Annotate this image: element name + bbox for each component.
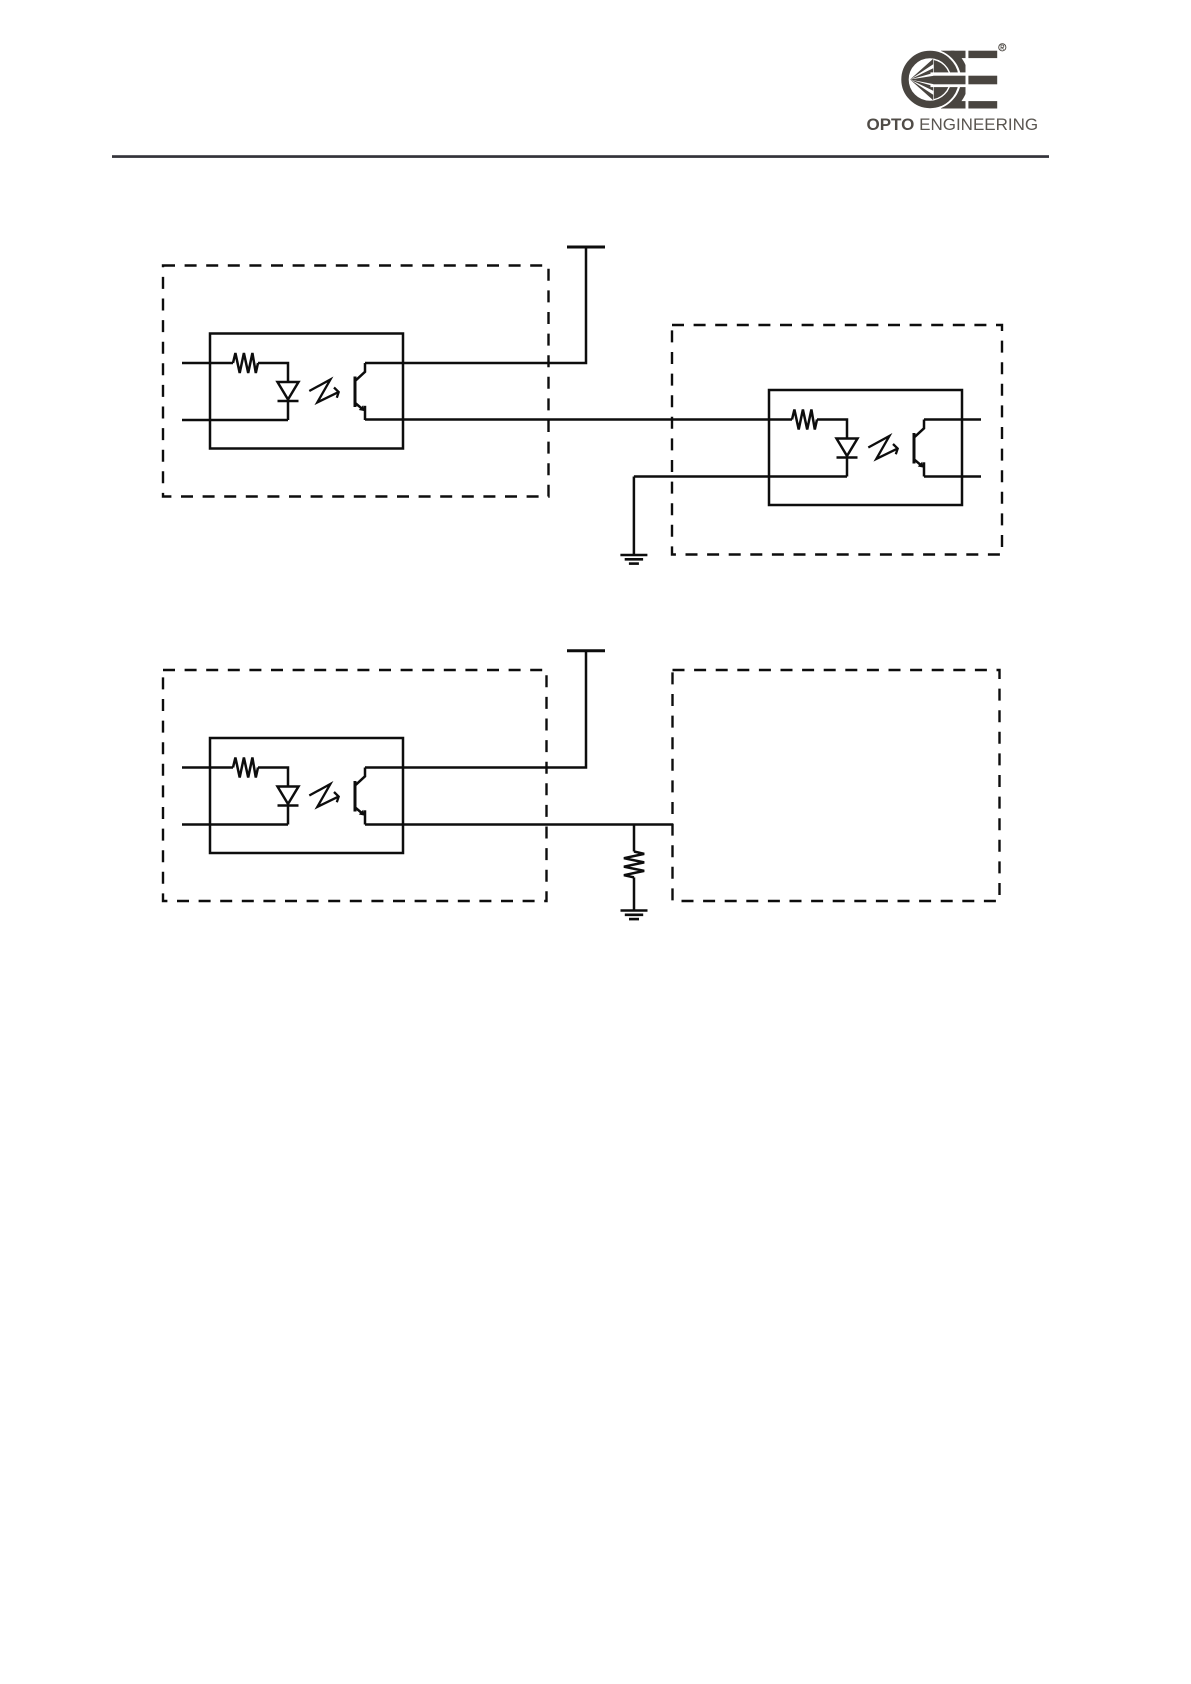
svg-text:OPTO ENGINEERING: OPTO ENGINEERING (867, 115, 1039, 134)
